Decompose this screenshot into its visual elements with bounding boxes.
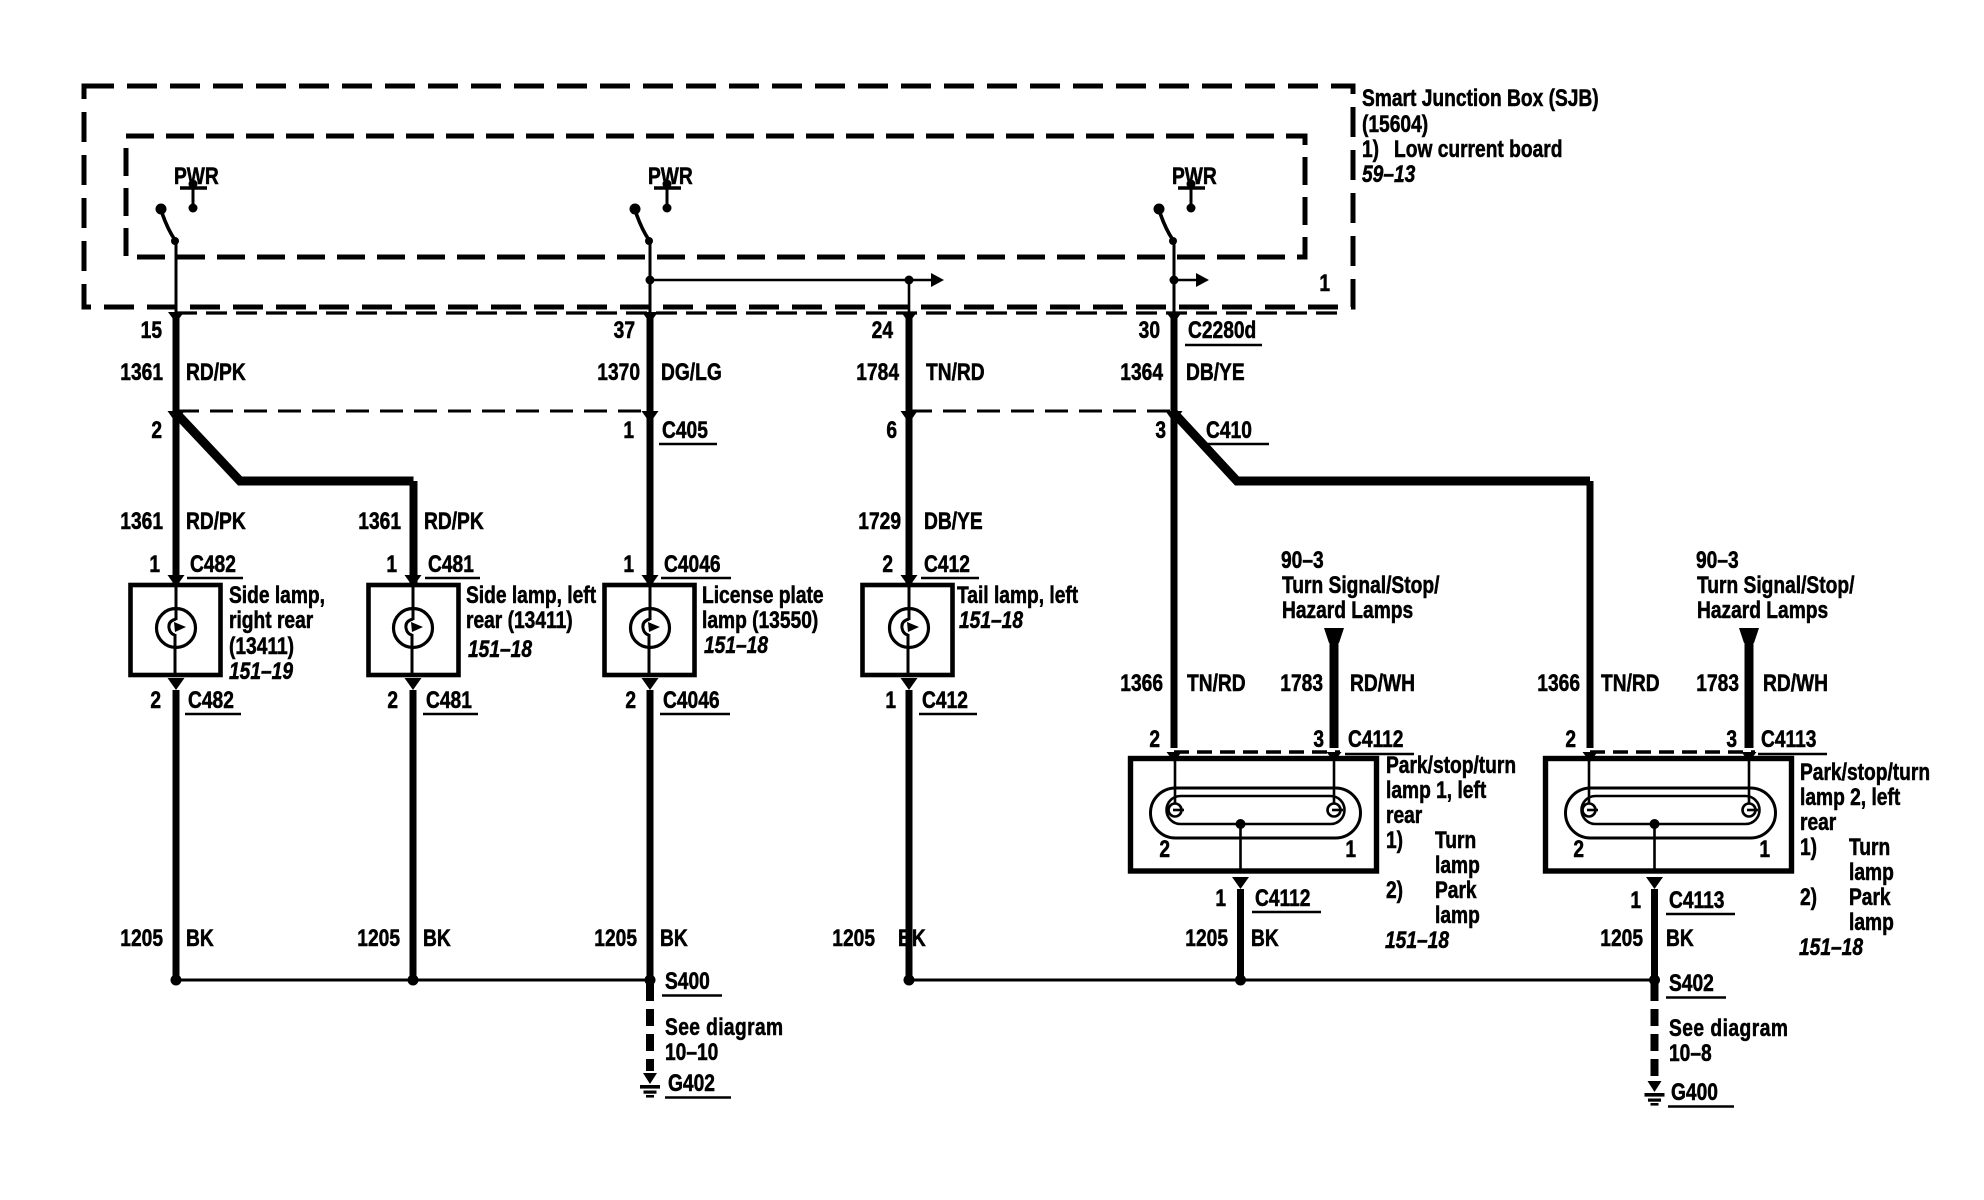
splice S400 label [662, 967, 722, 996]
svg-text:6: 6 [886, 416, 897, 444]
svg-text:Park/stop/turn: Park/stop/turn [1800, 758, 1930, 786]
svg-text:151–18: 151–18 [704, 631, 769, 659]
lamp M1 side lamp right rear [131, 585, 221, 675]
svg-text:lamp: lamp [1435, 851, 1480, 879]
wire 1364 DB/YE label [1120, 358, 1244, 386]
svg-text:1: 1 [1630, 886, 1641, 914]
svg-text:2: 2 [387, 686, 398, 714]
svg-text:2: 2 [1565, 725, 1576, 753]
ground wire col2 to splice bus [410, 690, 417, 980]
svg-text:90–3: 90–3 [1696, 546, 1739, 574]
svg-text:C481: C481 [426, 686, 472, 714]
ground lead dashed to G402 [646, 984, 654, 1071]
svg-text:C4112: C4112 [1348, 725, 1403, 753]
svg-text:2): 2) [1386, 876, 1403, 904]
svg-text:RD/WH: RD/WH [1763, 669, 1828, 697]
wire from PWR switch 3 down to pin 30 [1173, 240, 1176, 316]
svg-text:2: 2 [625, 686, 636, 714]
ground wire col1 to splice bus [173, 690, 180, 980]
wire 1366 TN/RD label right [1537, 669, 1659, 697]
SJB title text [1362, 84, 1599, 188]
svg-text:G402: G402 [668, 1069, 715, 1097]
svg-text:3: 3 [1726, 725, 1737, 753]
svg-text:RD/WH: RD/WH [1350, 669, 1415, 697]
arrowhead into park lamp connector x=1749 [1742, 752, 1757, 762]
park/stop/turn lamp 1 left rear [1131, 757, 1377, 872]
label 90-3 Turn Signal/Stop/Hazard Lamps [1281, 546, 1439, 624]
wire 1783 RD/WH label left [1280, 669, 1415, 697]
connector C2280d dashed edge line [176, 311, 1340, 314]
svg-text:1205: 1205 [357, 924, 400, 952]
svg-text:Low current board: Low current board [1394, 135, 1562, 163]
svg-text:C4112: C4112 [1255, 884, 1310, 912]
svg-text:BK: BK [1251, 924, 1279, 952]
svg-text:3: 3 [1155, 416, 1166, 444]
svg-text:1783: 1783 [1696, 669, 1739, 697]
wire from PWR switch 1 down to pin 15 [175, 240, 178, 316]
arrowhead into connector row1 x=1174 [1166, 312, 1182, 323]
label license plate lamp [702, 581, 824, 659]
svg-text:DB/YE: DB/YE [1186, 358, 1245, 386]
wire 1361 RD/PK label at col2 [358, 507, 484, 535]
svg-text:1783: 1783 [1280, 669, 1323, 697]
svg-text:BK: BK [186, 924, 214, 952]
ground wire park lamp 2 to splice S402 [1651, 889, 1658, 980]
see diagram note S402 [1669, 1014, 1788, 1067]
wire col3 down to C4046 [647, 411, 654, 585]
svg-text:1: 1 [885, 686, 896, 714]
wire 1361 RD/PK label at col1 (lower) [120, 507, 246, 535]
svg-text:C4046: C4046 [663, 686, 720, 714]
ground splice bus wire left segment S400 [176, 979, 650, 982]
svg-text:rear (13411): rear (13411) [466, 606, 573, 634]
svg-text:(13411): (13411) [229, 632, 294, 660]
label side lamp left rear [466, 581, 596, 663]
splice node at x=1654.5 [1649, 975, 1660, 986]
arrowhead into lamp box x=909 [901, 575, 918, 587]
splice node at x=413 [408, 975, 419, 986]
svg-text:(15604): (15604) [1362, 110, 1428, 138]
arrowhead below connector row2 x=176 [168, 411, 185, 423]
svg-text:30: 30 [1139, 316, 1160, 344]
svg-text:59–13: 59–13 [1362, 160, 1415, 188]
svg-text:1364: 1364 [1120, 358, 1163, 386]
wire 1205 BK label at x=163 [120, 924, 214, 952]
svg-text:lamp (13550): lamp (13550) [702, 606, 818, 634]
svg-text:TN/RD: TN/RD [1187, 669, 1246, 697]
svg-text:C410: C410 [1206, 416, 1252, 444]
pin 1 connector C4113 below [1630, 886, 1735, 914]
svg-text:1): 1) [1800, 833, 1817, 861]
svg-text:2: 2 [151, 416, 162, 444]
svg-text:1): 1) [1386, 826, 1403, 854]
pin 3 and label C410 [1155, 416, 1269, 444]
ground G402 label [665, 1069, 731, 1098]
svg-text:right rear: right rear [229, 606, 314, 634]
wire col3 from pin 37 to C405 [647, 316, 654, 411]
svg-text:C482: C482 [188, 686, 234, 714]
pin 2 connector C4046 below lamp [625, 686, 730, 714]
svg-text:1361: 1361 [120, 507, 163, 535]
svg-text:Turn Signal/Stop/: Turn Signal/Stop/ [1282, 571, 1439, 599]
wire col4 down to C412 [906, 411, 913, 585]
svg-text:Park: Park [1849, 883, 1891, 911]
svg-text:DB/YE: DB/YE [924, 507, 983, 535]
svg-text:1361: 1361 [358, 507, 401, 535]
svg-text:1370: 1370 [597, 358, 640, 386]
wire col5 down to C4112 [1171, 411, 1178, 748]
connector C4112 dashed line [1174, 750, 1340, 753]
svg-text:lamp: lamp [1435, 901, 1480, 929]
label tail lamp left [957, 581, 1078, 634]
svg-text:BK: BK [660, 924, 688, 952]
svg-text:C482: C482 [190, 550, 236, 578]
svg-text:24: 24 [872, 316, 893, 344]
svg-text:RD/PK: RD/PK [186, 358, 246, 386]
svg-text:1361: 1361 [120, 358, 163, 386]
wire 1205 BK label at x=637 [594, 924, 688, 952]
svg-text:1: 1 [1345, 835, 1356, 863]
arrowhead into park lamp connector x=1174 [1167, 752, 1182, 762]
svg-text:Hazard Lamps: Hazard Lamps [1697, 596, 1828, 624]
in-line connector dashed line C405 segment [176, 410, 650, 413]
svg-text:S402: S402 [1669, 969, 1714, 997]
svg-text:RD/PK: RD/PK [186, 507, 246, 535]
label park/stop/turn lamp 1 [1385, 751, 1516, 954]
switch blade at x=176 [156, 204, 180, 246]
svg-text:1: 1 [623, 550, 634, 578]
pin 1 connector C4046 [623, 550, 731, 578]
pin 1 connector C482 [149, 550, 243, 578]
splice node at x=1240.5 [1235, 975, 1246, 986]
arrowhead into lamp box x=650 [642, 575, 659, 587]
pin 2 connector C412 [882, 550, 979, 578]
svg-text:37: 37 [614, 316, 635, 344]
svg-text:Hazard Lamps: Hazard Lamps [1282, 596, 1413, 624]
svg-text:TN/RD: TN/RD [926, 358, 985, 386]
splice node at x=650 [645, 975, 656, 986]
arrowhead into park lamp connector x=1334 [1327, 752, 1342, 762]
wire 1205 BK label at x=1228 [1185, 924, 1279, 952]
splice node at x=176 [171, 975, 182, 986]
svg-text:1205: 1205 [594, 924, 637, 952]
wire branch from node 2 to side lamp left rear [176, 413, 414, 481]
ground symbol G400 [1648, 1081, 1662, 1092]
arrowhead into lamp box x=413 [405, 575, 422, 587]
pin 1 connector C412 below lamp [885, 686, 977, 714]
switch blade at x=650 [630, 204, 654, 246]
svg-text:C2280d: C2280d [1188, 316, 1256, 344]
svg-text:1729: 1729 [858, 507, 901, 535]
svg-text:Tail lamp, left: Tail lamp, left [957, 581, 1078, 609]
ground wire col3 to splice S400 [647, 690, 654, 980]
svg-text:RD/PK: RD/PK [424, 507, 484, 535]
ground symbol G402 [643, 1073, 657, 1084]
svg-text:10–10: 10–10 [665, 1038, 718, 1066]
connector C2280d label [1185, 316, 1262, 345]
pin 2 connector C482 below lamp [150, 686, 241, 714]
label 90-3 Turn Signal/Stop/Hazard Lamps [1696, 546, 1854, 624]
wire col5 from pin 30 to C410 [1171, 316, 1178, 411]
ground G400 label [1668, 1078, 1734, 1107]
svg-text:Park: Park [1435, 876, 1477, 904]
arrowhead below connector row2 x=1174 [1166, 411, 1183, 423]
svg-text:C412: C412 [922, 686, 968, 714]
svg-text:1205: 1205 [1185, 924, 1228, 952]
arrowhead below park lamp 2 [1646, 877, 1663, 889]
svg-text:1205: 1205 [120, 924, 163, 952]
svg-text:2: 2 [150, 686, 161, 714]
SJB low-current-board inner dashed box [126, 136, 1305, 257]
svg-text:lamp 1, left: lamp 1, left [1386, 776, 1486, 804]
svg-text:2): 2) [1800, 883, 1817, 911]
lamp M2 side lamp left rear [369, 585, 459, 675]
svg-text:1205: 1205 [1600, 924, 1643, 952]
ground lead dashed to G400 [1651, 984, 1659, 1079]
svg-text:lamp: lamp [1849, 908, 1894, 936]
arrowhead below connector row2 x=650 [642, 411, 659, 423]
arrowhead into connector row1 x=650 [642, 312, 658, 323]
svg-text:Turn Signal/Stop/: Turn Signal/Stop/ [1697, 571, 1854, 599]
svg-text:See diagram: See diagram [1669, 1014, 1788, 1042]
wire 1729 DB/YE label at col4 [858, 507, 982, 535]
SJB internal feed arrow from node at col3 to col4 [646, 273, 945, 287]
svg-text:lamp: lamp [1849, 858, 1894, 886]
svg-text:1: 1 [1215, 884, 1226, 912]
arrowhead into park lamp connector x=1590 [1583, 752, 1598, 762]
arrowhead below lamp box x=176 [168, 678, 185, 690]
svg-text:C405: C405 [662, 416, 708, 444]
svg-text:1): 1) [1362, 135, 1379, 163]
svg-text:TN/RD: TN/RD [1601, 669, 1660, 697]
ground wire park lamp 1 to bus [1237, 889, 1244, 980]
pin 1 connector C4112 below [1215, 884, 1321, 912]
wire 1361 RD/PK label (circuit 1361) [120, 358, 246, 386]
pin 1 and label C405 [623, 416, 717, 444]
svg-text:1366: 1366 [1120, 669, 1163, 697]
splice node at x=909 [904, 975, 915, 986]
svg-text:151–18: 151–18 [959, 606, 1024, 634]
lamp M3 license plate lamp [605, 585, 695, 675]
park/stop/turn lamp 2 left rear [1546, 757, 1792, 872]
wire 1784 TN/RD label [856, 358, 984, 386]
svg-text:2: 2 [1573, 835, 1584, 863]
svg-text:151–19: 151–19 [229, 657, 293, 685]
svg-text:2: 2 [1149, 725, 1160, 753]
svg-text:BK: BK [898, 924, 926, 952]
wire 1370 DG/LG label [597, 358, 721, 386]
svg-text:See diagram: See diagram [665, 1013, 784, 1041]
wire col1 from branch down to C482 [173, 411, 180, 585]
power feed symbol PWR at x=650 [648, 162, 693, 213]
svg-text:BK: BK [1666, 924, 1694, 952]
connector C4113 dashed line [1590, 750, 1755, 753]
svg-text:1205: 1205 [832, 924, 875, 952]
ground splice bus wire right segment S402 [909, 979, 1655, 982]
svg-text:2: 2 [882, 550, 893, 578]
svg-text:3: 3 [1313, 725, 1324, 753]
svg-text:Side lamp, left: Side lamp, left [466, 581, 596, 609]
power feed symbol PWR at x=176 [174, 162, 219, 213]
label side lamp right rear [229, 581, 325, 685]
svg-text:1: 1 [386, 550, 397, 578]
svg-text:Turn: Turn [1435, 826, 1476, 854]
arrowhead below lamp box x=650 [642, 678, 659, 690]
wire 1205 BK label at x=400 [357, 924, 451, 952]
wire col6 vertical down to C4113 [1587, 481, 1594, 748]
arrowhead into connector row1 x=909 [901, 312, 917, 323]
svg-text:Park/stop/turn: Park/stop/turn [1386, 751, 1516, 779]
svg-text:151–18: 151–18 [468, 635, 533, 663]
svg-text:C4113: C4113 [1761, 725, 1816, 753]
svg-text:2: 2 [1159, 835, 1170, 863]
arrowhead below lamp box x=909 [901, 678, 918, 690]
svg-text:rear: rear [1800, 808, 1837, 836]
svg-text:BK: BK [423, 924, 451, 952]
svg-text:151–18: 151–18 [1799, 933, 1864, 961]
arrowhead below park lamp 1 [1232, 877, 1249, 889]
wire 1366 TN/RD label left [1120, 669, 1245, 697]
svg-text:1: 1 [623, 416, 634, 444]
power feed symbol PWR at x=1174 [1172, 162, 1217, 213]
svg-text:15: 15 [141, 316, 162, 344]
wire from PWR switch 2 down to pin 37 [649, 238, 652, 316]
connector C4113 label [1758, 725, 1827, 754]
svg-text:G400: G400 [1671, 1078, 1718, 1106]
pin 2 connector C481 below lamp [387, 686, 478, 714]
svg-text:90–3: 90–3 [1281, 546, 1324, 574]
connector C4112 label [1345, 725, 1414, 754]
arrowhead into connector row1 x=176 [168, 312, 184, 323]
svg-text:1784: 1784 [856, 358, 899, 386]
svg-text:151–18: 151–18 [1385, 926, 1450, 954]
wire col4 from pin 24 to C412 [906, 316, 913, 411]
arrowhead below connector row2 x=909 [901, 411, 918, 423]
pin 1 connector C481 [386, 550, 480, 578]
wire branch from node 3 C410 to park/stop/turn lamp 2 [1174, 413, 1590, 481]
svg-text:rear: rear [1386, 801, 1423, 829]
svg-text:1: 1 [149, 550, 160, 578]
svg-text:DG/LG: DG/LG [661, 358, 722, 386]
svg-text:Side lamp,: Side lamp, [229, 581, 325, 609]
wire 1783 RD/WH label right [1696, 669, 1828, 697]
wire 1205 BK label at x=875 [832, 924, 926, 952]
feed from Turn Signal/Stop/Hazard lamps x=1749 [1739, 628, 1759, 748]
svg-text:1: 1 [1319, 269, 1330, 297]
wire col1 from pin 15 to C482 connector [173, 316, 180, 411]
svg-text:Smart Junction Box (SJB): Smart Junction Box (SJB) [1362, 84, 1599, 112]
SJB internal feed arrow at col5 [1170, 273, 1210, 287]
lamp M4 tail lamp left [863, 585, 953, 675]
label park/stop/turn lamp 2 [1799, 758, 1930, 961]
svg-text:S400: S400 [665, 967, 710, 995]
svg-text:C412: C412 [924, 550, 970, 578]
switch blade at x=1174 [1154, 204, 1178, 246]
see diagram note S400 [665, 1013, 784, 1066]
svg-text:1366: 1366 [1537, 669, 1580, 697]
wire col2 vertical down to C481 [410, 481, 418, 585]
wire 1205 BK label at x=1643 [1600, 924, 1694, 952]
Smart Junction Box SJB outer dashed box [84, 86, 1353, 307]
svg-text:C481: C481 [428, 550, 474, 578]
splice S402 label [1666, 969, 1726, 998]
arrowhead into lamp box x=176 [168, 575, 185, 587]
wire col4 tap down to pin 24 [908, 280, 911, 316]
svg-text:License plate: License plate [702, 581, 824, 609]
in-line connector dashed line C410 segment [909, 410, 1174, 413]
svg-text:Turn: Turn [1849, 833, 1890, 861]
feed from Turn Signal/Stop/Hazard lamps x=1334 [1324, 628, 1344, 748]
svg-text:C4046: C4046 [664, 550, 721, 578]
svg-text:1: 1 [1759, 835, 1770, 863]
svg-text:C4113: C4113 [1669, 886, 1724, 914]
svg-text:10–8: 10–8 [1669, 1039, 1712, 1067]
svg-text:lamp 2, left: lamp 2, left [1800, 783, 1900, 811]
ground wire col4 to splice bus [906, 690, 913, 980]
arrowhead below lamp box x=413 [405, 678, 422, 690]
